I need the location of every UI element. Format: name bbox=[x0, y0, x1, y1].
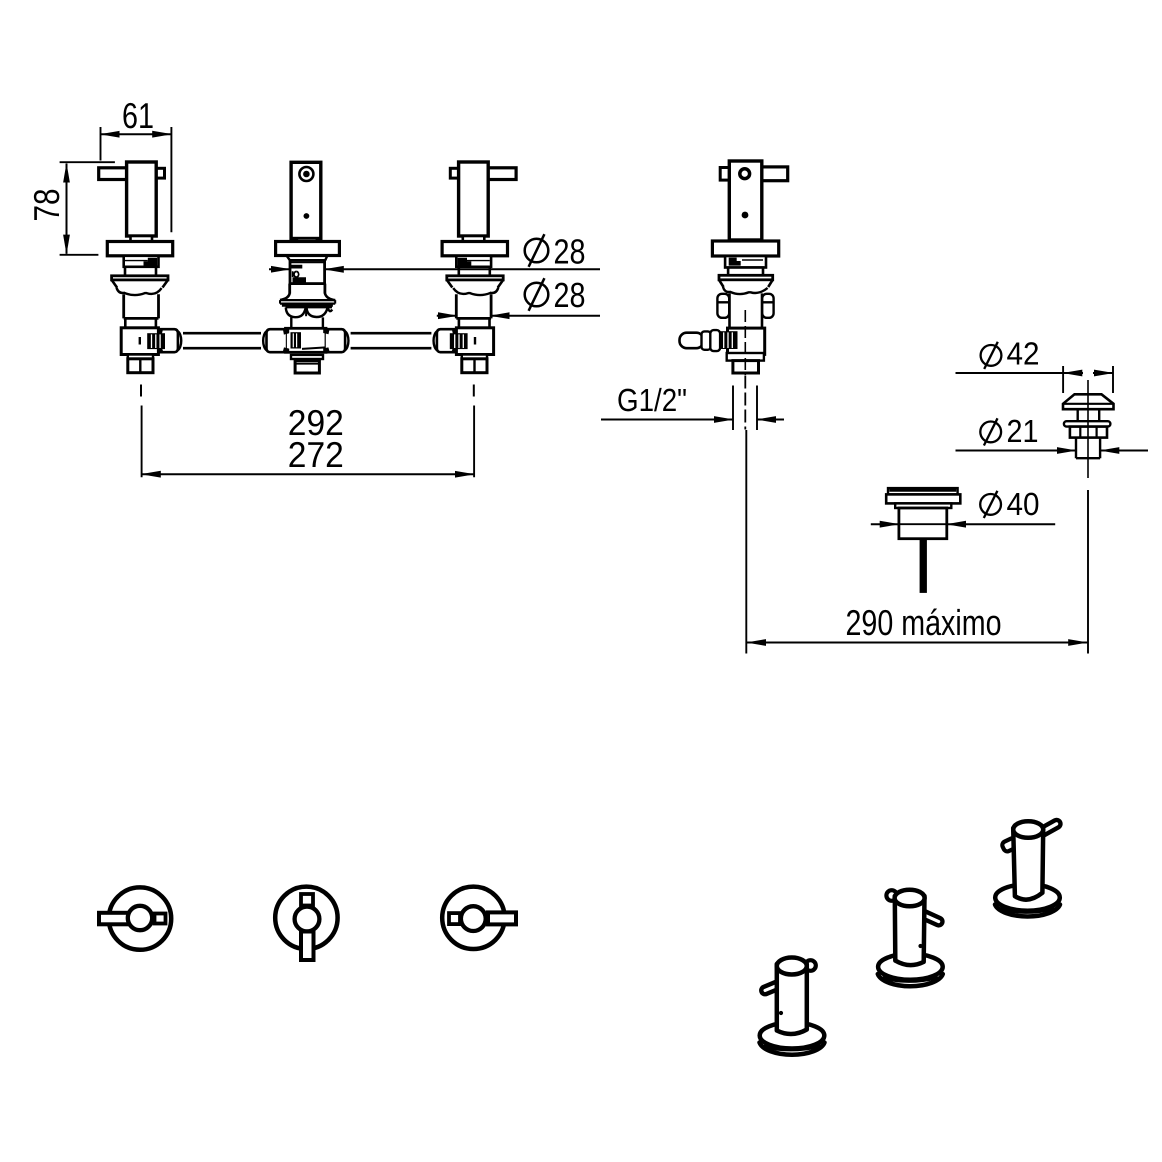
bell bands (middle) bbox=[280, 300, 335, 306]
body collar (middle) bbox=[291, 355, 323, 359]
svg-text:28: 28 bbox=[554, 276, 586, 315]
top view middle handle: bottom bar bbox=[301, 932, 314, 961]
left valve assembly bbox=[99, 162, 182, 397]
right valve assembly (mirror of left) bbox=[434, 162, 517, 397]
perspective handle 2 (middle): base bbox=[878, 974, 943, 986]
svg-text:G1/2": G1/2" bbox=[617, 382, 687, 418]
handle nub right (left valve) bbox=[153, 168, 165, 178]
dim Ø42 leader bbox=[956, 372, 1064, 374]
handle cross-bar (left valve) bbox=[99, 168, 130, 180]
dim Ø42 symbol bbox=[981, 342, 1002, 369]
svg-text:40: 40 bbox=[1007, 486, 1040, 522]
valve body (side view valve) bbox=[728, 328, 765, 354]
body collar (side view valve) bbox=[727, 353, 764, 361]
G1/2 extension lines bbox=[733, 386, 757, 431]
top view left handle: nub bbox=[155, 914, 166, 924]
SIDE-VIEW-VALVE bbox=[601, 161, 788, 654]
TOP-VIEWS bbox=[99, 887, 516, 960]
handle neck (left valve) bbox=[131, 236, 153, 242]
handle lower dot (side view valve) bbox=[742, 212, 749, 219]
top view right handle: bar bbox=[488, 912, 516, 924]
svg-text:272: 272 bbox=[288, 434, 344, 475]
upper neck with set-screw mark (left valve) bbox=[124, 256, 159, 267]
DRAIN-PARTS bbox=[747, 336, 1148, 654]
G1/2 dimension arrows bbox=[601, 419, 733, 421]
inlet ears column (side view valve) bbox=[730, 293, 763, 328]
bell flange band (side view valve) bbox=[719, 275, 773, 280]
pop-up waste threaded stem bbox=[1076, 438, 1100, 459]
pop-up waste centerline bbox=[1087, 380, 1089, 478]
pop-up waste neck bbox=[1078, 409, 1100, 421]
perspective handle 2: rear nub bbox=[886, 890, 897, 901]
PERSPECTIVE-HANDLES bbox=[760, 819, 1062, 1055]
dim 290 maximo extension line right bbox=[1087, 490, 1089, 654]
top view right handle: hub circle bbox=[461, 906, 486, 931]
upper screw hole ring (middle) bbox=[299, 167, 313, 181]
dim Ø40 arrows bbox=[871, 523, 899, 525]
top view right handle: escutcheon circle bbox=[442, 887, 504, 949]
bottom stub G1/2 (side view valve) bbox=[733, 361, 759, 373]
handle nub left (side view valve) bbox=[720, 168, 730, 181]
stem lower section (left valve) bbox=[125, 318, 156, 328]
body collar (left valve) bbox=[128, 355, 153, 359]
perspective handle 3: front nub bbox=[1001, 837, 1019, 853]
dim Ø28 lower: counter arrow bbox=[437, 315, 457, 317]
upper neck with set-screw mark (side view valve) bbox=[725, 256, 766, 268]
lower neck (left valve) bbox=[125, 267, 156, 276]
top view left handle: escutcheon circle bbox=[109, 887, 171, 949]
dim Ø28 upper: leader bbox=[325, 268, 600, 270]
handle body (side view valve) bbox=[729, 161, 762, 240]
centerline dash (left valve) bbox=[140, 385, 142, 397]
vertical extension to 290 dim bbox=[745, 430, 747, 654]
drain flange second plate bbox=[886, 494, 960, 503]
pop-up waste cap bbox=[1063, 394, 1114, 409]
svg-text:28: 28 bbox=[554, 232, 586, 271]
connecting pipe right bbox=[351, 333, 432, 348]
perspective handle 1: grip bar bbox=[760, 978, 789, 996]
svg-text:78: 78 bbox=[26, 189, 67, 222]
outlet union rings (side view valve) bbox=[702, 331, 711, 349]
perspective handle 3: grip bar bbox=[1037, 819, 1062, 838]
perspective handle 1 (lower left): base bbox=[760, 1043, 825, 1055]
dim Ø28 lower: leader bbox=[490, 315, 600, 317]
bell taper sides (side view valve) bbox=[719, 280, 773, 287]
handle body (left valve) bbox=[127, 162, 157, 236]
spout mounting body (middle) bbox=[291, 162, 321, 238]
threaded hatch (middle) bbox=[291, 332, 302, 348]
connecting pipe left bbox=[183, 333, 261, 348]
right inlet ear (side view valve) bbox=[762, 294, 773, 318]
top view middle handle: hub circle bbox=[295, 907, 320, 932]
svg-text:290 máximo: 290 máximo bbox=[846, 602, 1002, 643]
top view left handle: hub circle bbox=[128, 906, 152, 930]
handle screw ring (side view valve) bbox=[740, 169, 750, 179]
perspective handle 2: cylinder bbox=[895, 895, 925, 965]
drain flange cylinder bbox=[899, 508, 947, 539]
mounting nut arcs (side view valve) bbox=[723, 287, 768, 294]
bottom stub G1/2 (left valve) bbox=[128, 359, 153, 373]
dim 61 line with arrows bbox=[101, 133, 172, 135]
dim 290 maximo line with arrows bbox=[747, 642, 1088, 644]
union nut to pipe (left valve) bbox=[159, 329, 178, 352]
pop-up waste flange ring bbox=[1064, 421, 1111, 426]
centerline dashes (side view valve) bbox=[744, 310, 746, 375]
neck (middle) bbox=[297, 239, 317, 242]
dim 292/272 extension lines bbox=[142, 406, 475, 478]
bell flange band (left valve) bbox=[112, 276, 168, 280]
bell flare (middle) bbox=[280, 293, 335, 300]
lower screw hole (middle) bbox=[304, 213, 310, 219]
middle spout base unit bbox=[263, 162, 348, 373]
dim Ø28 upper: diameter symbol bbox=[525, 234, 549, 267]
cylinder section (middle) bbox=[290, 284, 325, 294]
handle bar toward right (side view valve) bbox=[762, 167, 788, 181]
dim Ø42 arrows bbox=[1063, 372, 1083, 374]
dim Ø28 upper: counter arrow bbox=[269, 268, 290, 270]
valve tee body (middle) bbox=[286, 328, 327, 352]
outlet thread hatch (side view valve) bbox=[720, 331, 738, 349]
svg-text:21: 21 bbox=[1007, 413, 1039, 449]
valve body (left valve) bbox=[121, 328, 158, 355]
threaded stem (left valve) bbox=[124, 294, 159, 318]
perspective handle 1: rear nub bbox=[805, 960, 816, 971]
top view middle handle: top nub bbox=[301, 894, 313, 906]
escutcheon flange (middle) bbox=[276, 242, 340, 256]
bell taper sides (left valve) bbox=[112, 280, 168, 288]
dim Ø42 extension lines bbox=[1063, 366, 1113, 393]
perspective handle 1: cylinder bbox=[777, 963, 807, 1034]
dim 78 extension lines bbox=[60, 162, 115, 255]
drain flange step bbox=[895, 503, 951, 508]
dim Ø21 leader and arrows bbox=[956, 450, 1077, 452]
stem (middle) bbox=[291, 317, 323, 327]
svg-text:42: 42 bbox=[1007, 336, 1040, 372]
bottom stub (middle) bbox=[295, 361, 319, 373]
union nut left (middle) bbox=[267, 329, 286, 352]
perspective handle 3 (upper right): base bbox=[995, 905, 1060, 917]
top view middle handle: escutcheon circle bbox=[275, 887, 337, 949]
mounting nut arcs (left valve) bbox=[117, 288, 162, 296]
svg-text:61: 61 bbox=[122, 95, 154, 136]
union nut right (middle) bbox=[326, 329, 345, 352]
threaded inlet hatch (left valve) bbox=[147, 333, 165, 349]
mounting nut arcs (middle) bbox=[286, 306, 333, 308]
pop-up waste hex nut bbox=[1070, 427, 1107, 438]
flange taper (middle) bbox=[287, 256, 328, 261]
left inlet ear (side view valve) bbox=[717, 294, 729, 318]
top view left handle: bar bbox=[99, 913, 129, 925]
upper neck with set-screw marks (middle) bbox=[290, 260, 325, 283]
drain flange top plate bbox=[888, 488, 958, 494]
top view right handle: nub bbox=[449, 913, 460, 924]
dim Ø21 symbol bbox=[980, 418, 1001, 445]
dim Ø28 lower: diameter symbol bbox=[525, 278, 549, 311]
perspective handle 3: cylinder bbox=[1013, 827, 1043, 900]
dim 61 extension lines bbox=[101, 127, 172, 232]
dim Ø40 symbol bbox=[980, 491, 1001, 518]
outlet tip (side view valve) bbox=[680, 333, 704, 349]
dim 78 line with arrows bbox=[66, 164, 68, 254]
perspective handle 2: grip bar bbox=[915, 908, 944, 926]
drain threaded rod bbox=[920, 539, 927, 593]
FRONT-VIEW-ASSEMBLY bbox=[99, 162, 516, 397]
DIMENSIONS-TOP bbox=[26, 95, 600, 477]
escutcheon flange (left valve) bbox=[107, 242, 172, 256]
dim 292/272 line with arrows bbox=[142, 473, 475, 475]
escutcheon flange (side view valve) bbox=[712, 241, 778, 256]
stem section (side view valve) bbox=[728, 268, 763, 276]
